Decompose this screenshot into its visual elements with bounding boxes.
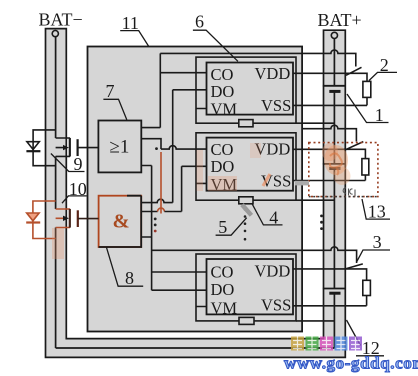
- wire: VSS1 tap below cell 1: [293, 97, 367, 106]
- svg-text:CO: CO: [211, 65, 234, 84]
- svg-text:BAT+: BAT+: [318, 10, 362, 30]
- label 10: [62, 179, 87, 203]
- wire: VDD2 to balance resistor 2: [293, 149, 365, 158]
- watermark residue marks in box 13: [343, 188, 355, 197]
- label 3: [357, 232, 390, 262]
- label 4: [252, 204, 282, 228]
- svg-text:13: 13: [368, 201, 386, 221]
- MOSFET Q1 (discharge switch, label 9): [56, 138, 99, 157]
- wire: right pack center conductor (cell chain): [333, 39, 335, 348]
- svg-text:DO: DO: [211, 157, 235, 176]
- watermark smudge: gray bar on VSS2 wire: [295, 181, 309, 186]
- balance resistor (cell 1): [363, 81, 371, 97]
- balance resistor (cell 3): [363, 280, 371, 295]
- cell 2 (battery cell inside dashed box 13): [323, 164, 346, 169]
- wire: VSS3 tap below cell 3: [293, 296, 367, 306]
- svg-text:VSS: VSS: [261, 96, 291, 115]
- svg-text:CO: CO: [211, 140, 234, 159]
- BAT+ terminal: [331, 32, 337, 38]
- svg-text:7: 7: [106, 81, 115, 101]
- wire: bottom pack connector: [56, 347, 335, 349]
- IC module 3 outer loop with sense resistor: [196, 254, 296, 324]
- label 2: [369, 55, 397, 81]
- wire: CO1 to OR input and balance feed L1: [141, 50, 355, 128]
- switch 2 blade (cell 1 balance switch): [346, 67, 362, 75]
- watermark: orange stamp blob over cell 2: [322, 143, 351, 185]
- wire: VDD3 to balance resistor 3: [293, 269, 367, 280]
- body diode D1 (parallel with MOSFET 9): [26, 130, 55, 166]
- watermark: colored site name characters: [291, 337, 362, 351]
- wire: DO1 down to AND top input (hop over orange bus): [141, 90, 206, 203]
- controller box 11: [88, 47, 303, 332]
- watermark: orange tint on VM2 area: [52, 143, 270, 259]
- svg-text:www.go-gddq.com: www.go-gddq.com: [284, 354, 418, 373]
- svg-text:BAT−: BAT−: [39, 10, 83, 30]
- label 6: [193, 12, 238, 62]
- watermark: site url: [284, 354, 418, 373]
- svg-text:VSS: VSS: [261, 296, 291, 315]
- ellipsis dots near battery chain: [320, 215, 323, 231]
- battery pack outline (U-shaped double-line band): [46, 29, 346, 358]
- svg-text:VM: VM: [211, 99, 238, 118]
- label 5: [216, 217, 247, 237]
- protection IC U2 (middle): [207, 138, 294, 195]
- svg-text:&: &: [113, 210, 130, 232]
- wire: left pack center conductor: [55, 37, 57, 348]
- svg-text:≥1: ≥1: [110, 137, 130, 158]
- wire: OR bottom input vertical to CO3 and DO3: [141, 166, 206, 291]
- wire: VDD1 to balance resistor 1: [293, 73, 367, 82]
- BAT- label: [39, 10, 83, 30]
- label 7: [103, 81, 126, 120]
- ellipsis dots near OR gate: [155, 147, 158, 150]
- BAT+ label: [318, 10, 362, 30]
- wire: orange chain bus (cell-2 highlight): [160, 152, 162, 214]
- BAT- terminal: [52, 30, 58, 36]
- body diode D2 (orange, parallel with MOSFET 10): [26, 201, 55, 239]
- IC module 2 outer loop with sense resistor (resistor 4): [196, 133, 296, 204]
- svg-text:6: 6: [195, 12, 204, 32]
- wire: VSS2 tap below cell 2: [293, 175, 365, 181]
- svg-text:VDD: VDD: [255, 64, 291, 83]
- svg-text:DO: DO: [211, 280, 235, 299]
- switch 3 blade (cell 3 balance switch): [345, 264, 363, 269]
- svg-text:5: 5: [218, 217, 227, 237]
- watermark smudge: gray slash near resistor 4: [242, 205, 251, 216]
- dotted tap line below resistor 4 (label 5): [244, 208, 247, 240]
- switch blade cell 2 (inside box 13): [344, 142, 363, 151]
- svg-text:DO: DO: [211, 82, 235, 101]
- svg-text:8: 8: [125, 268, 134, 288]
- label 9: [51, 154, 85, 175]
- protection IC U1 (top, label 6): [207, 63, 294, 119]
- label 12: [347, 320, 385, 358]
- svg-text:3: 3: [373, 232, 382, 252]
- protection IC U3 (bottom): [207, 259, 294, 317]
- label 11: [120, 13, 149, 47]
- AND gate U5 (label 8, highlighted): [99, 196, 142, 247]
- wire: VM pin stubs: [196, 109, 207, 307]
- ellipsis dots near AND gate: [154, 218, 157, 233]
- cell 3 (battery cell): [323, 289, 346, 294]
- wire: balance feed W3 to switch 3 stub: [152, 247, 357, 263]
- wire: module sense lines to cell taps: [296, 123, 334, 321]
- dashed box 13 (repeated cell unit): [309, 143, 378, 197]
- svg-text:VM: VM: [211, 298, 238, 317]
- MOSFET Q2 (charge switch, label 10, highlighted): [56, 209, 99, 228]
- wire: balance feed L2 from module1 resistor line to switch 2 stub: [302, 125, 356, 141]
- label 1: [347, 94, 389, 125]
- svg-text:CO: CO: [211, 263, 234, 282]
- IC module 1 outer loop with sense resistor: [196, 57, 296, 127]
- label 8: [107, 248, 144, 289]
- balance resistor (cell 2): [362, 159, 369, 175]
- label 13: [362, 199, 390, 221]
- cell 1 (battery cell, label 1): [323, 86, 346, 92]
- svg-text:VDD: VDD: [255, 262, 291, 281]
- wire: DO2 down to AND second input (orange hop): [141, 166, 206, 211]
- OR gate U4 (label 7): [98, 121, 141, 173]
- wire: OR mid input to CO2 (jog with hop): [141, 139, 206, 149]
